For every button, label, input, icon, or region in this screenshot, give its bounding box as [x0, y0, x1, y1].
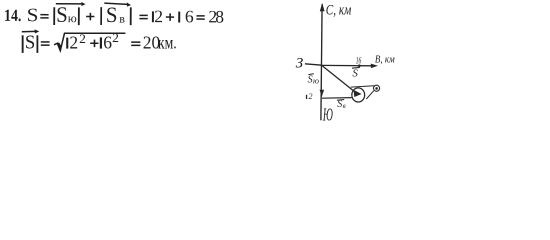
svg-text:В, км: В, км: [375, 53, 395, 65]
svg-text:S: S: [106, 2, 118, 27]
svg-text:S: S: [352, 68, 358, 80]
svg-text:2: 2: [112, 31, 119, 45]
svg-text:2: 2: [69, 33, 78, 53]
svg-text:км.: км.: [158, 33, 177, 53]
svg-text:ю: ю: [68, 11, 77, 25]
svg-text:14.: 14.: [4, 6, 22, 25]
svg-text:в: в: [119, 12, 125, 26]
svg-text:2: 2: [79, 32, 86, 46]
svg-text:ю: ю: [313, 75, 319, 85]
svg-text:Ю: Ю: [322, 104, 333, 124]
svg-text:8: 8: [215, 6, 224, 26]
svg-text:S: S: [56, 2, 68, 27]
svg-text:S: S: [308, 74, 313, 85]
svg-text:16: 16: [356, 57, 362, 67]
svg-text:С, км: С, км: [326, 2, 352, 18]
svg-text:S: S: [27, 5, 39, 26]
svg-text:З: З: [296, 55, 304, 71]
svg-text:2: 2: [309, 92, 313, 101]
svg-text:S: S: [337, 99, 342, 110]
svg-text:S: S: [25, 32, 35, 54]
svg-text:6: 6: [103, 33, 112, 53]
svg-text:2: 2: [154, 6, 163, 26]
svg-text:в: в: [343, 102, 346, 110]
svg-text:6: 6: [185, 6, 194, 26]
